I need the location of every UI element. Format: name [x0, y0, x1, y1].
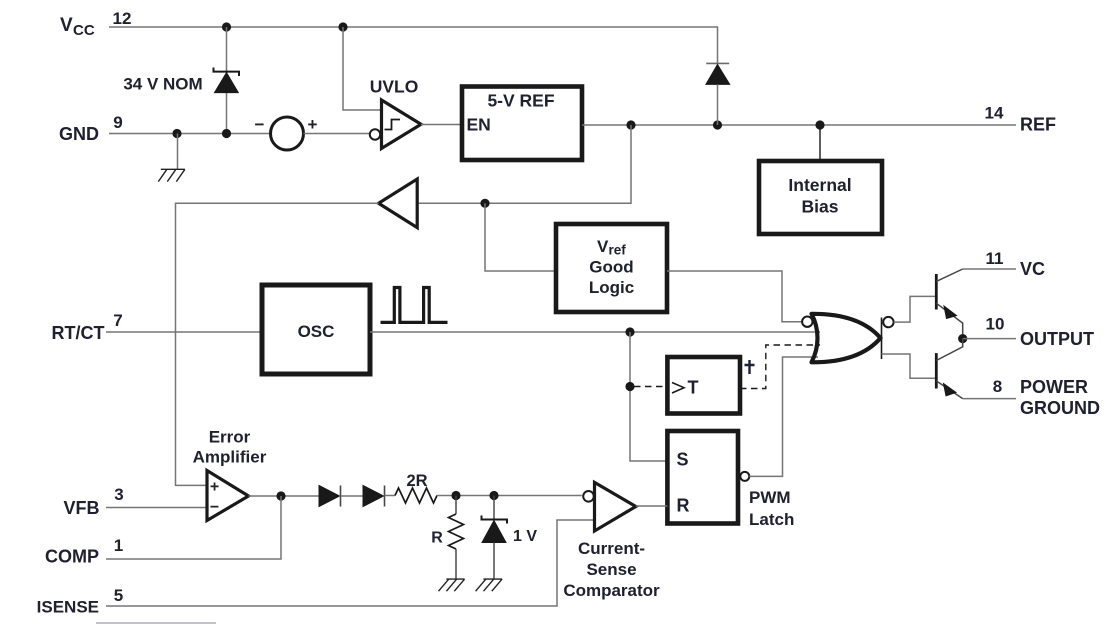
svg-text:EN: EN: [467, 115, 491, 135]
label dagger: [745, 360, 755, 374]
ground symbol (GND pin): [158, 134, 185, 182]
wire OR tip to bottom transistor base: [882, 354, 937, 378]
wire to Vref Good Logic: [485, 203, 556, 271]
svg-text:OSC: OSC: [298, 322, 335, 341]
svg-text:Error: Error: [209, 428, 251, 447]
junction GND-zener: [222, 129, 231, 138]
svg-text:12: 12: [113, 9, 132, 28]
wire REF junction down to inverter input: [417, 125, 631, 203]
svg-text:8: 8: [993, 377, 1002, 396]
wire REF net: [582, 124, 1016, 126]
junction VCC-UVLO: [338, 22, 347, 31]
block 5-V REF: [462, 87, 582, 161]
svg-text:T: T: [688, 378, 699, 398]
ground symbol (1 V zener): [476, 579, 503, 591]
wire dashed T output to OR gate: [740, 345, 820, 389]
svg-text:ISENSE: ISENSE: [37, 598, 99, 617]
diode D3: [319, 486, 341, 507]
wire ISENSE net: [106, 520, 595, 606]
wire 2R to comparator: [437, 495, 582, 497]
wire between diodes: [341, 495, 364, 497]
wire VC pin: [963, 268, 1016, 270]
wire R to ground: [455, 549, 457, 579]
svg-text:REF: REF: [1020, 115, 1056, 135]
svg-text:Comparator: Comparator: [563, 581, 660, 600]
svg-text:−: −: [255, 115, 265, 134]
clock waveform: [381, 288, 448, 323]
junction COMP: [276, 491, 285, 500]
svg-text:11: 11: [986, 249, 1004, 268]
label Current-Sense Comparator: [563, 539, 660, 600]
svg-text:Good: Good: [589, 258, 633, 277]
wire POWER GROUND pin: [963, 398, 1016, 400]
resistor R: [449, 514, 464, 549]
wire OSC output to OR gate: [370, 331, 820, 333]
svg-text:Amplifier: Amplifier: [193, 448, 267, 467]
OR gate output bubble: [883, 317, 893, 327]
svg-text:10: 10: [986, 315, 1005, 334]
block Vref Good Logic: [556, 224, 667, 312]
svg-text:Current-: Current-: [578, 539, 645, 558]
transistor Q1 (top): [936, 269, 962, 334]
junction REF-diode: [713, 120, 722, 129]
wire UVLO to 5-V REF: [421, 124, 462, 126]
wire REF to Internal Bias: [819, 125, 821, 161]
diode D4: [363, 486, 385, 507]
svg-text:+: +: [308, 115, 318, 134]
svg-text:7: 7: [113, 311, 122, 330]
label PWM Latch: [749, 488, 794, 529]
svg-text:1: 1: [114, 536, 123, 555]
comparator UVLO: [382, 100, 422, 149]
zener diode 1 V: [482, 496, 508, 580]
wire dashed to T input: [634, 386, 667, 388]
PWM latch output bubble: [740, 472, 749, 481]
svg-text:UVLO: UVLO: [370, 77, 419, 97]
junction R divider: [451, 491, 460, 500]
junction REF-bias: [815, 120, 824, 129]
junction inverter line: [480, 199, 489, 208]
wire RT/CT net: [106, 331, 262, 333]
svg-text:3: 3: [114, 485, 123, 504]
wire zener branch: [226, 27, 228, 134]
svg-text:9: 9: [113, 113, 122, 132]
pin label VCC: [60, 15, 95, 39]
wire comparator output to R input: [636, 505, 668, 507]
svg-text:GROUND: GROUND: [1020, 398, 1100, 418]
block OSC: [262, 285, 370, 374]
svg-text:14: 14: [985, 104, 1004, 123]
OR gate: [812, 314, 882, 363]
junction zener 1V: [489, 491, 498, 500]
buffer (2.5V reference, points left): [379, 179, 418, 228]
wire COMP net: [106, 496, 281, 559]
svg-text:5: 5: [114, 586, 123, 605]
offset source circle: [271, 117, 304, 150]
wire latch output to OR gate: [749, 357, 818, 476]
svg-text:GND: GND: [59, 124, 99, 144]
zener diode 34 V NOM: [214, 68, 240, 93]
wire OUTPUT pin: [963, 338, 1016, 340]
svg-text:CC: CC: [73, 22, 95, 39]
svg-text:Internal: Internal: [788, 175, 851, 195]
svg-text:V: V: [60, 15, 73, 36]
svg-text:R: R: [431, 530, 443, 547]
svg-text:VFB: VFB: [64, 498, 100, 518]
svg-text:34 V NOM: 34 V NOM: [123, 75, 202, 94]
wire Vref Good Logic to OR gate: [667, 271, 802, 322]
svg-text:2R: 2R: [406, 472, 427, 490]
svg-text:5-V REF: 5-V REF: [487, 91, 554, 111]
junction VCC-zener: [222, 22, 231, 31]
pin label POWER GROUND: [1020, 377, 1100, 418]
svg-text:Sense: Sense: [586, 560, 636, 579]
latch S/R (PWM latch): [667, 431, 738, 524]
block Internal Bias: [759, 161, 882, 234]
ground symbol (R): [439, 579, 465, 591]
svg-text:−: −: [210, 499, 219, 516]
junction output node: [958, 334, 967, 343]
cropped text artifact bottom left: [96, 622, 216, 624]
svg-text:POWER: POWER: [1020, 377, 1088, 397]
wire clock to S input: [630, 332, 667, 461]
svg-text:Bias: Bias: [802, 196, 839, 216]
UVLO input bubble: [370, 129, 380, 139]
junction OSC-latch: [625, 327, 634, 336]
wire offset source to UVLO: [304, 133, 371, 135]
svg-text:+: +: [210, 479, 219, 496]
svg-text:RT/CT: RT/CT: [52, 323, 105, 343]
junction REF-inverter: [626, 120, 635, 129]
wire OR output to top transistor base: [894, 296, 937, 322]
svg-text:V: V: [597, 237, 609, 256]
OR gate input bubble: [802, 317, 812, 327]
wire VFB net: [106, 507, 207, 509]
junction GND-ground: [172, 129, 181, 138]
flip-flop T: [667, 357, 740, 414]
wire VCC net: [109, 27, 718, 63]
svg-text:PWM: PWM: [749, 488, 791, 507]
transistor Q2 (bottom): [936, 339, 962, 399]
comparator input bubble: [583, 491, 594, 502]
wire error amp output: [249, 495, 320, 497]
svg-text:COMP: COMP: [45, 547, 99, 567]
op-amp error amplifier: [207, 471, 249, 521]
wire diode to 2R: [385, 495, 396, 497]
svg-text:R: R: [677, 496, 690, 516]
resistor 2R: [395, 488, 437, 503]
wire VCC to UVLO input: [343, 27, 382, 110]
svg-text:ref: ref: [609, 243, 627, 258]
svg-text:S: S: [677, 450, 689, 470]
wire feedback to error amp +: [176, 203, 379, 485]
diode (VCC to REF): [706, 63, 730, 125]
comparator current sense: [595, 482, 636, 531]
label Error Amplifier: [193, 428, 267, 467]
svg-text:OUTPUT: OUTPUT: [1020, 329, 1094, 349]
wire junction to R: [455, 496, 457, 515]
svg-text:Latch: Latch: [749, 510, 794, 529]
svg-text:VC: VC: [1020, 259, 1045, 279]
junction T branch: [625, 382, 634, 391]
wire GND net: [109, 133, 270, 135]
svg-text:Logic: Logic: [589, 278, 634, 297]
svg-text:1 V: 1 V: [513, 528, 537, 545]
